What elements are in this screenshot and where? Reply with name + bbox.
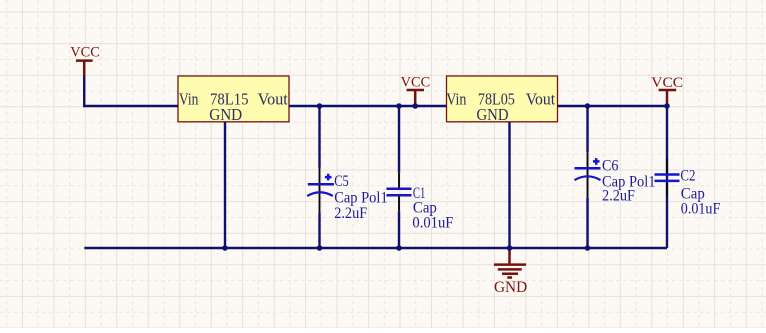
svg-text:2.2uF: 2.2uF: [602, 188, 635, 205]
svg-text:0.01uF: 0.01uF: [412, 215, 453, 232]
svg-text:2.2uF: 2.2uF: [334, 205, 367, 222]
svg-text:0.01uF: 0.01uF: [681, 200, 721, 217]
svg-text:C2: C2: [680, 168, 695, 185]
svg-text:Vin: Vin: [179, 90, 199, 109]
svg-text:GND: GND: [494, 279, 527, 296]
svg-text:GND: GND: [477, 105, 509, 124]
svg-text:GND: GND: [209, 105, 242, 124]
svg-text:VCC: VCC: [401, 75, 431, 91]
svg-text:C5: C5: [334, 173, 349, 190]
svg-text:Vin: Vin: [446, 90, 467, 109]
svg-text:VCC: VCC: [651, 75, 683, 91]
svg-text:Vout: Vout: [526, 90, 556, 109]
svg-text:Vout: Vout: [258, 90, 289, 109]
svg-text:C6: C6: [602, 157, 619, 174]
svg-text:Cap Pol1: Cap Pol1: [334, 189, 388, 206]
svg-text:VCC: VCC: [70, 44, 100, 60]
